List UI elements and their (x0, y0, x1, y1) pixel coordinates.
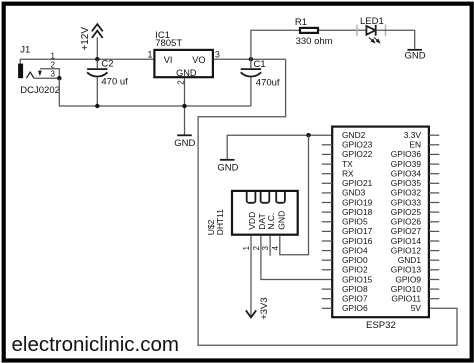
svg-text:EN: EN (409, 140, 421, 150)
svg-text:+12V: +12V (80, 27, 91, 51)
svg-text:GPIO26: GPIO26 (391, 217, 422, 227)
svg-text:GPIO17: GPIO17 (342, 226, 373, 236)
+12V supply symbol (92, 24, 103, 38)
svg-text:1: 1 (51, 51, 56, 60)
DHT11 pin 1 wire to +3V3 (250, 236, 252, 317)
DHT11 pin labels (247, 211, 287, 230)
ground net wire to ESP32 GND2 (227, 135, 332, 159)
svg-text:GPIO14: GPIO14 (391, 236, 422, 246)
svg-text:1: 1 (147, 49, 152, 59)
svg-text:GPIO33: GPIO33 (391, 197, 422, 207)
junction dot C2 ground (95, 104, 99, 108)
+3V3 supply arrow (246, 310, 256, 317)
svg-text:VI: VI (164, 55, 173, 65)
svg-text:GPIO21: GPIO21 (342, 178, 373, 188)
DHT11 pin numbers (242, 245, 280, 250)
svg-text:GPIO39: GPIO39 (391, 159, 422, 169)
svg-text:GND: GND (404, 51, 425, 62)
svg-text:GPIO27: GPIO27 (391, 226, 422, 236)
svg-text:GND: GND (217, 162, 238, 173)
svg-text:1: 1 (242, 246, 251, 250)
svg-text:GPIO25: GPIO25 (391, 207, 422, 217)
ESP32 module box (332, 127, 429, 318)
svg-text:GND2: GND2 (342, 130, 366, 140)
svg-text:GPIO7: GPIO7 (342, 294, 368, 304)
svg-text:7805T: 7805T (155, 38, 182, 49)
svg-text:GPIO0: GPIO0 (342, 255, 368, 265)
connector J1 barrel (18, 64, 23, 79)
svg-text:330 ohm: 330 ohm (296, 36, 333, 47)
DHT11 pin 4 GND wire (280, 135, 309, 255)
svg-text:3: 3 (261, 246, 270, 250)
svg-text:GPIO22: GPIO22 (342, 149, 373, 159)
+12V wire (96, 37, 98, 59)
LED triangle (366, 26, 375, 35)
LED pin mark left (356, 25, 358, 37)
svg-text:3: 3 (215, 49, 220, 59)
junction dot J1 pins 2-3 (57, 76, 61, 80)
svg-text:3: 3 (51, 69, 56, 78)
svg-text:2: 2 (51, 60, 56, 69)
wire VO up to R1 level (251, 30, 299, 59)
svg-text:GPIO4: GPIO4 (342, 245, 368, 255)
J1 pin 2 wire (40, 69, 59, 79)
DHT11 vent slots (247, 190, 285, 203)
DHT11 pin 3 stub (269, 236, 271, 256)
svg-text:2: 2 (252, 246, 261, 250)
svg-text:GPIO5: GPIO5 (342, 217, 368, 227)
svg-text:470 uf: 470 uf (101, 77, 128, 88)
svg-text:4: 4 (271, 245, 280, 250)
svg-text:GPIO34: GPIO34 (391, 169, 422, 179)
junction dot +12V rail (95, 57, 99, 61)
svg-text:GPIO16: GPIO16 (342, 236, 373, 246)
DHT11 pin 2 DAT wire to GPIO15 (261, 236, 332, 280)
svg-text:ESP32: ESP32 (366, 320, 396, 331)
svg-text:5V: 5V (411, 303, 422, 313)
wire J1 to ground rail (59, 78, 251, 106)
svg-text:GPIO35: GPIO35 (391, 178, 422, 188)
svg-text:GPIO19: GPIO19 (342, 197, 373, 207)
J1 pin 1 wire to IC1 VI (20, 59, 153, 63)
wire LED1 to GND (376, 30, 415, 49)
capacitor C1 (250, 59, 252, 106)
svg-text:DHT11: DHT11 (215, 209, 225, 236)
svg-text:C1: C1 (254, 59, 266, 70)
svg-text:GPIO36: GPIO36 (391, 149, 422, 159)
ground symbol under IC1 (177, 134, 192, 136)
svg-text:GPIO13: GPIO13 (391, 265, 422, 275)
wire R1 to LED1 (319, 29, 366, 31)
svg-text:GPIO2: GPIO2 (342, 265, 368, 275)
svg-text:TX: TX (342, 159, 353, 169)
ESP32 pin stubs (322, 135, 440, 308)
svg-text:VO: VO (192, 55, 205, 65)
svg-text:GPIO18: GPIO18 (342, 207, 373, 217)
IC1 pin 3 wire (214, 58, 286, 60)
svg-text:GND: GND (277, 211, 287, 230)
svg-text:GND3: GND3 (342, 188, 366, 198)
svg-text:GPIO8: GPIO8 (342, 284, 368, 294)
svg-text:+3V3: +3V3 (259, 297, 270, 319)
svg-text:J1: J1 (20, 45, 30, 56)
svg-text:C2: C2 (101, 58, 113, 69)
LED pin mark right (385, 25, 387, 37)
svg-text:DCJ0202: DCJ0202 (20, 85, 60, 96)
IC1 GND pin wire (184, 78, 186, 134)
svg-text:GPIO23: GPIO23 (342, 140, 373, 150)
svg-text:VDD: VDD (247, 212, 257, 230)
svg-text:GND1: GND1 (398, 255, 422, 265)
svg-text:3.3V: 3.3V (404, 130, 422, 140)
J1 pin 3 wire (34, 77, 59, 79)
junction dot VO net (249, 57, 253, 61)
svg-text:R1: R1 (295, 17, 307, 28)
svg-text:GPIO6: GPIO6 (342, 303, 368, 313)
LED light arrows (369, 38, 380, 43)
junction dot GND2 net (306, 133, 310, 137)
svg-text:N.C.: N.C. (266, 213, 276, 230)
svg-text:electroniclinic.com: electroniclinic.com (12, 333, 179, 356)
ground symbol right of LED (407, 49, 422, 51)
svg-text:GND: GND (176, 68, 197, 78)
svg-text:GPIO10: GPIO10 (391, 284, 422, 294)
ESP32 pin name labels (342, 130, 421, 313)
svg-text:GND: GND (174, 138, 195, 149)
J1 pin 2 arrow (38, 69, 42, 77)
svg-text:LED1: LED1 (360, 16, 384, 27)
svg-text:GPIO32: GPIO32 (391, 188, 422, 198)
LED cathode bar (375, 25, 377, 36)
svg-text:GPIO9: GPIO9 (395, 274, 421, 284)
svg-text:GPIO15: GPIO15 (342, 274, 373, 284)
svg-text:RX: RX (342, 169, 354, 179)
svg-text:GPIO12: GPIO12 (391, 245, 422, 255)
svg-text:GPIO11: GPIO11 (391, 294, 421, 304)
5V routing wire VO to ESP32 5V pin (198, 59, 457, 345)
J1 switch lever (26, 72, 34, 78)
capacitor C2 (96, 59, 98, 106)
junction dot IC1 gnd rail (182, 104, 186, 108)
ground symbol left of ESP32 (220, 159, 235, 161)
svg-text:470uf: 470uf (256, 77, 280, 88)
